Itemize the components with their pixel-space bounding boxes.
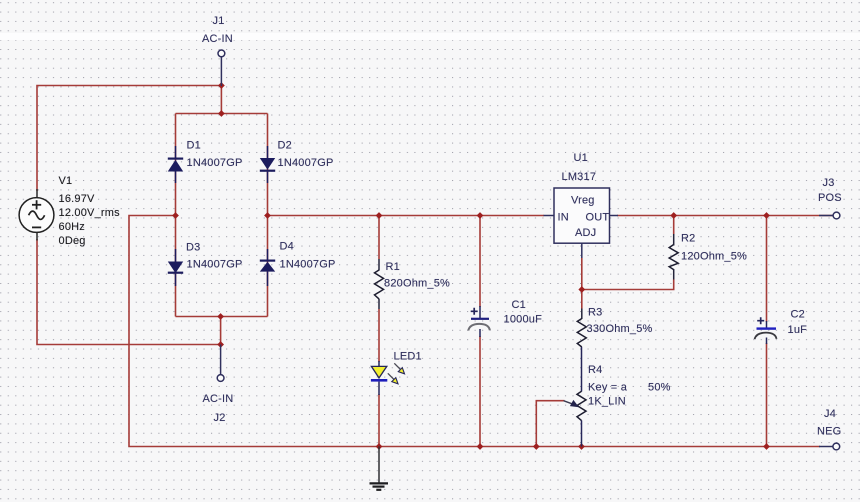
wire R1 top lead [378,216,380,260]
resistor R3 [577,319,586,348]
wire C2 bottom to NEG rail [766,343,768,447]
node C2 top junction [763,212,770,219]
svg-text:AC-IN: AC-IN [202,33,233,45]
svg-text:R2: R2 [681,233,695,245]
diode D3 [168,249,183,286]
connector J3 [819,212,840,219]
node C1 bottom junction [477,443,484,450]
svg-text:820Ohm_5%: 820Ohm_5% [384,278,450,290]
svg-text:LED1: LED1 [394,351,422,363]
wire J2 junction up to bridge bottom rail [220,317,222,345]
potentiometer R4 [564,347,587,447]
svg-text:1N4007GP: 1N4007GP [280,259,336,271]
svg-text:J4: J4 [824,408,836,420]
svg-text:OUT: OUT [586,212,610,224]
svg-text:C1: C1 [512,299,526,311]
svg-text:120Ohm_5%: 120Ohm_5% [681,251,747,263]
svg-text:Vreg: Vreg [571,195,595,207]
wire U1 OUT rail to J3 [617,215,833,217]
svg-text:1uF: 1uF [788,324,808,336]
svg-text:60Hz: 60Hz [59,221,85,233]
svg-text:U1: U1 [574,152,588,164]
label V1 [59,175,121,247]
wire R2 top lead [673,216,675,235]
svg-text:1K_LIN: 1K_LIN [588,396,626,408]
svg-text:AC-IN: AC-IN [203,393,234,405]
node C1 top junction [477,212,484,219]
LED LED1 [371,361,405,395]
resistor R1 [375,270,384,299]
capacitor C1 [468,306,490,337]
node R4 bottom junction [578,443,585,450]
wire LED1 to NEG rail [378,394,380,447]
node R1 top junction [376,212,383,219]
diode D4 [260,249,275,286]
wire DC- mid-left to NEG rail [129,216,820,447]
diode D2 [260,146,275,183]
node bridge bottom junction [217,313,224,320]
wire DC+ mid-right to U1 IN [268,215,545,217]
svg-text:R4: R4 [588,364,602,376]
node R2 top junction [670,212,677,219]
wire bridge right branch [267,114,269,317]
node DC+ mid-right junction [264,212,271,219]
connector J2 [217,345,224,382]
resistor R2 [669,245,678,270]
svg-text:ADJ: ADJ [575,227,596,239]
svg-text:50%: 50% [648,382,671,394]
svg-text:C2: C2 [791,309,805,321]
wire R1 bottom to LED1 [378,299,380,309]
svg-text:D4: D4 [280,241,294,253]
node C2 bottom junction [763,443,770,450]
svg-text:D3: D3 [186,242,200,254]
ground [370,447,389,490]
node DC- mid-left junction [172,212,179,219]
svg-text:R3: R3 [588,307,602,319]
svg-text:POS: POS [818,192,842,204]
node ground junction [376,443,383,450]
diode D1 [168,146,183,183]
svg-text:0Deg: 0Deg [59,235,86,247]
svg-text:NEG: NEG [817,426,841,438]
wire C1 top lead [479,216,481,308]
svg-text:D1: D1 [187,140,201,152]
wire R2 bottom to ADJ node [673,269,675,280]
node J1-V1 junction [218,82,225,89]
svg-text:J1: J1 [213,15,225,27]
node ADJ junction [578,286,585,293]
wire V1 bottom to J2 junction [37,239,221,345]
svg-text:1N4007GP: 1N4007GP [187,259,243,271]
wire J1 feed horizontal to V1 top [37,86,221,192]
wire ADJ node to R3 [581,290,583,309]
svg-text:12.00V_rms: 12.00V_rms [59,207,121,219]
svg-text:R1: R1 [386,261,400,273]
svg-text:J2: J2 [214,412,226,424]
svg-text:IN: IN [558,212,569,224]
wire bridge left branch [175,114,177,317]
regulator U1 [544,188,619,258]
svg-text:330Ohm_5%: 330Ohm_5% [587,323,653,335]
node J2 junction [217,341,224,348]
connector J1 [218,50,225,86]
wire C2 top lead [766,216,768,323]
svg-text:D2: D2 [278,140,292,152]
svg-text:1N4007GP: 1N4007GP [187,157,243,169]
node R4 wiper bottom junction [533,443,540,450]
wire C1 bottom to NEG rail [479,336,481,447]
wire bridge top rail [176,113,268,115]
source V1 [19,189,54,241]
svg-text:LM317: LM317 [562,171,597,183]
wire J1 junction down to bridge top rail [220,86,222,114]
svg-text:1N4007GP: 1N4007GP [278,157,334,169]
wire R4 wiper to NEG rail [536,401,564,447]
connector J4 [819,443,840,450]
svg-text:J3: J3 [823,177,835,189]
svg-text:V1: V1 [59,175,73,187]
svg-text:1000uF: 1000uF [504,314,543,326]
capacitor C2 [755,317,777,344]
svg-text:16.97V: 16.97V [59,193,96,205]
svg-text:Key = a: Key = a [588,382,628,394]
wire U1 ADJ to node [581,258,583,290]
wire bridge bottom rail [176,316,268,318]
node bridge top junction [218,110,225,117]
